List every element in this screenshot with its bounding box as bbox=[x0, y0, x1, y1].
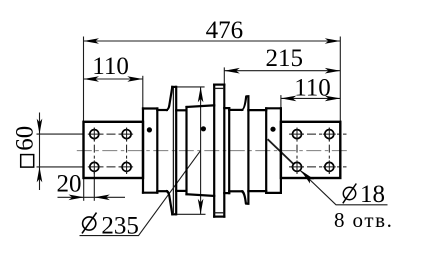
wire ext square60 bottom row bbox=[37, 166, 85, 168]
tread top right2 bbox=[248, 109, 266, 111]
wire ext left plate edge up bbox=[83, 37, 85, 122]
left flange right edge bbox=[175, 87, 177, 214]
left flange top flat bbox=[172, 86, 175, 88]
thin extension and dimension lines bbox=[37, 37, 388, 236]
svg-text:110: 110 bbox=[294, 74, 331, 101]
centerline axis bbox=[77, 150, 349, 152]
central flange right edge bbox=[223, 85, 225, 217]
leader dia235 bbox=[80, 151, 201, 236]
leader dia18 8holes bbox=[295, 165, 388, 205]
left flange top taper bbox=[167, 87, 172, 110]
central flange bottom bbox=[214, 216, 224, 218]
roller left end face bbox=[142, 109, 144, 193]
arrow sq60 bottom bbox=[37, 167, 43, 183]
arrow 215 left bbox=[224, 68, 240, 74]
dim line square60 vertical bbox=[39, 113, 41, 191]
roller outline: thick contours bbox=[143, 85, 281, 217]
ledge bottom bbox=[224, 192, 229, 194]
hole L-TR bbox=[122, 130, 131, 139]
arrow 110L left bbox=[84, 76, 100, 82]
arrow 20 left bbox=[69, 195, 85, 201]
bolt dot left cap bbox=[147, 127, 152, 132]
wire ext 20 right bbox=[93, 172, 95, 201]
collar bottom slant bbox=[242, 191, 248, 203]
square symbol bbox=[21, 155, 34, 168]
central flange bottom chamfer bbox=[214, 212, 224, 214]
svg-text:215: 215 bbox=[266, 45, 304, 72]
hole L-BL bbox=[90, 162, 99, 171]
tread top left bbox=[176, 109, 185, 111]
right bracket plate bbox=[281, 122, 340, 178]
bolt dot cone bbox=[201, 126, 206, 131]
dim line 20 bbox=[58, 196, 126, 198]
dim line 110 left bbox=[84, 78, 143, 80]
cone top bbox=[187, 105, 215, 107]
cap top edge bbox=[143, 107, 157, 109]
wire ext central flange up bbox=[223, 67, 225, 84]
hole R-BL bbox=[293, 162, 302, 171]
central flange top chamfer bbox=[214, 87, 224, 89]
step edge circle bbox=[185, 107, 187, 194]
cap bottom edge bbox=[143, 192, 157, 194]
wire ext dia235 top bbox=[176, 86, 204, 88]
svg-text:110: 110 bbox=[92, 53, 129, 80]
left cap edge circle bbox=[156, 109, 158, 193]
arrow 476 right bbox=[325, 38, 341, 44]
thin face lines on roller bbox=[173, 88, 224, 213]
arrow 110R left bbox=[281, 96, 297, 102]
arrow 110L right bbox=[127, 76, 143, 82]
dim line 215 bbox=[224, 70, 340, 72]
arrow 110R right bbox=[325, 96, 341, 102]
svg-text:20: 20 bbox=[57, 171, 82, 198]
tread bottom left bbox=[176, 190, 185, 192]
right cap top bbox=[266, 107, 281, 109]
svg-text:235: 235 bbox=[101, 213, 138, 240]
neck bottom bbox=[157, 190, 167, 192]
arrow sq60 top bbox=[37, 119, 43, 135]
hole L-TL bbox=[90, 130, 99, 139]
hole cross marks bbox=[88, 128, 336, 174]
arrow 476 left bbox=[84, 38, 100, 44]
tread bottom right bbox=[229, 190, 242, 192]
left bracket plate bbox=[84, 122, 144, 178]
label dia18 symbol bbox=[343, 184, 357, 204]
ledge edge circle bbox=[228, 108, 230, 193]
roller right end face bbox=[280, 108, 282, 193]
ledge top bbox=[224, 107, 229, 109]
cone bottom bbox=[187, 194, 215, 196]
left flange bottom taper bbox=[167, 191, 172, 214]
arrow dia235 top bbox=[198, 87, 204, 103]
hole R-TR bbox=[325, 130, 334, 139]
arrow dia18 at hole bbox=[301, 170, 315, 183]
svg-text:60: 60 bbox=[11, 126, 38, 151]
tread top right bbox=[229, 109, 242, 111]
wire ext right plate edge up bbox=[339, 37, 341, 122]
neck top bbox=[157, 109, 167, 111]
left flange inner line bbox=[172, 88, 174, 213]
arrowheads bbox=[37, 38, 341, 214]
hole R-BR bbox=[325, 162, 334, 171]
holes left plate bbox=[90, 130, 334, 172]
wire ext roller left end up bbox=[142, 76, 144, 108]
left flange bottom flat bbox=[172, 213, 175, 215]
node hole-centerlines right plate bbox=[289, 128, 347, 174]
dim line 476 bbox=[84, 40, 341, 42]
svg-text:8: 8 bbox=[334, 208, 345, 232]
dim line dia235 vertical bbox=[200, 87, 202, 214]
bolt dot right cap bbox=[270, 127, 275, 132]
collar top slant bbox=[242, 96, 248, 110]
wire ext dia235 bottom bbox=[173, 213, 206, 215]
right cap edge circle bbox=[265, 108, 267, 193]
arrow dia235 bottom bbox=[198, 199, 204, 215]
collar right edge bbox=[247, 96, 249, 203]
svg-text:отв.: отв. bbox=[353, 208, 394, 232]
arrow 215 right bbox=[325, 68, 341, 74]
arrow 20 right bbox=[94, 195, 110, 201]
node hole-centerlines left plate bbox=[89, 128, 133, 174]
leader dia18 upper segment bbox=[268, 139, 295, 165]
hole R-TL bbox=[293, 130, 302, 139]
central flange top bbox=[214, 83, 224, 85]
label dia235 symbol bbox=[82, 213, 97, 234]
central flange left edge bbox=[213, 85, 215, 217]
tread bottom right2 bbox=[248, 190, 266, 192]
wire ext right cap up bbox=[280, 95, 282, 108]
right cap bottom bbox=[266, 192, 281, 194]
svg-text:18: 18 bbox=[360, 181, 385, 208]
hole L-BR bbox=[122, 162, 131, 171]
wire ext 20 left bbox=[83, 179, 85, 201]
dim line 110 right bbox=[281, 97, 340, 99]
wire ext square60 top row bbox=[37, 133, 85, 135]
svg-text:476: 476 bbox=[206, 17, 244, 44]
